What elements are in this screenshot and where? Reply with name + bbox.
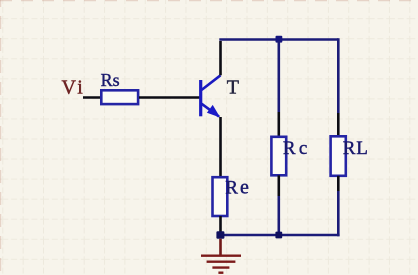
ground — [201, 239, 241, 273]
svg-text:Rs: Rs — [101, 70, 120, 90]
wire collector up — [219, 41, 222, 75]
svg-text:R: R — [283, 138, 296, 159]
transistor T — [201, 75, 239, 117]
wire Vi to Rs — [83, 96, 101, 99]
svg-text:c: c — [299, 138, 307, 159]
wire top rail right down to RL — [337, 38, 340, 136]
node top junction — [276, 36, 283, 43]
resistor Re — [213, 176, 250, 216]
resistor Rc — [271, 137, 307, 176]
svg-text:T: T — [227, 76, 239, 98]
svg-text:L: L — [356, 138, 368, 159]
wire emitter down to Re — [219, 117, 222, 178]
svg-text:V: V — [62, 77, 77, 99]
node ground junction — [216, 231, 224, 239]
wire RL to bottom rail — [337, 176, 340, 237]
resistor Rs — [101, 70, 139, 104]
node bottom junction at Rc — [275, 232, 282, 239]
svg-text:R: R — [225, 177, 238, 198]
wire Rs to base — [139, 96, 200, 99]
resistor RL — [331, 136, 368, 176]
wire junction down to Rc — [277, 41, 280, 137]
wire top rail — [219, 38, 338, 41]
svg-text:e: e — [240, 176, 249, 198]
wire Re to ground junction — [219, 216, 222, 234]
wire bottom rail — [219, 234, 339, 237]
svg-text:i: i — [77, 77, 83, 99]
svg-text:R: R — [343, 138, 356, 159]
wire Rc to bottom rail — [277, 175, 280, 234]
